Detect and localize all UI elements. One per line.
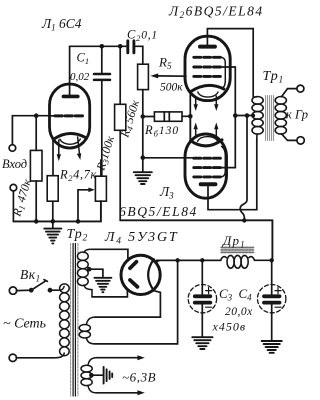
inner bottom arc Л1: [60, 139, 80, 144]
cathode of Л3: [191, 140, 222, 146]
capacitor C4 electrolytic: [258, 260, 286, 340]
wiper arrow of R5 to grid Л2: [150, 73, 186, 78]
svg-text:0,02: 0,02: [70, 71, 90, 83]
label ~Сеть: [3, 317, 46, 332]
output terminal lower к Гр: [297, 137, 304, 144]
resistor R3 potentiometer: [95, 160, 106, 201]
svg-text:к Гр: к Гр: [286, 108, 308, 122]
node B+ rail: [242, 218, 246, 222]
minus mark C3: [206, 306, 212, 308]
resistor R6: [143, 112, 191, 121]
secondary winding Тр1: [275, 97, 286, 135]
anode of Л3: [201, 182, 216, 186]
B+ feed wire with hop: [240, 116, 247, 221]
input terminal upper (Вход): [9, 145, 16, 152]
capacitor C2: [128, 41, 134, 53]
anode of Л1: [63, 95, 77, 99]
ground below C3: [192, 337, 212, 349]
potentiometer R5: [138, 64, 149, 116]
capacitor C1: [94, 74, 110, 80]
svg-text:х450в: х450в: [212, 320, 247, 334]
node C3 rail: [200, 258, 204, 262]
resistor R2: [47, 176, 58, 222]
grid g3 of Л2 (dashes): [194, 56, 221, 59]
label C2 0,1: [127, 28, 158, 44]
triode tube Л1 6С4 envelope: [50, 84, 90, 148]
grid of Л1 (dashes): [55, 114, 83, 117]
label Л4 5У3GТ: [104, 230, 178, 247]
output terminal upper к Гр: [297, 85, 304, 92]
ground rotated 6.3V tap: [104, 367, 113, 384]
label C3 C4 values: [212, 286, 254, 334]
wire C1 line (top bus to R3): [101, 46, 103, 176]
label Тр1: [263, 69, 285, 86]
node grid/R1: [34, 113, 39, 118]
node g2 riser centre tap: [233, 113, 238, 118]
node heater winding B+: [175, 258, 179, 262]
svg-text:~ Сеть: ~ Сеть: [3, 317, 46, 332]
wire mains lower to primary: [16, 357, 55, 359]
switch Вк1 terminal: [9, 287, 16, 294]
svg-text:20,0х: 20,0х: [225, 306, 253, 318]
g2 lead of Л3: [220, 167, 236, 169]
svg-text:С20,1: С20,1: [127, 28, 158, 44]
ground below R5 junction: [134, 158, 152, 184]
wire ground node to grid Л3: [143, 157, 194, 159]
label Вк1: [20, 267, 41, 284]
label R2 4,7к: [59, 168, 97, 184]
6.3V centre tap: [89, 373, 103, 378]
heater lead right Л2: [214, 96, 218, 111]
label 6BQ5/EL84 under Л3: [119, 204, 198, 219]
svg-text:R24,7к: R24,7к: [59, 168, 97, 184]
resistor R4: [115, 46, 126, 220]
wire ground bus: [13, 201, 101, 221]
svg-text:Вход: Вход: [2, 157, 27, 171]
wire R5 bottom to ground node: [142, 117, 144, 158]
centre tap wire Тр1: [235, 115, 253, 117]
capacitor C3 electrolytic: [188, 260, 216, 336]
g3 internal connection to cathode Л3: [220, 146, 225, 177]
resistor R1: [30, 116, 42, 221]
label R4 560к: [117, 98, 143, 140]
inner top arc Л3: [198, 137, 218, 142]
grid g1 of Л2 (dashes): [194, 75, 221, 78]
power transformer Тр2 core: [71, 244, 78, 397]
pentode tube Л2 envelope: [185, 36, 230, 100]
wire 5V winding bottom to B+ node: [95, 260, 178, 344]
node R5 R6 junction: [141, 114, 146, 119]
g3 internal connection to cathode Л2: [220, 57, 225, 89]
wire grid line into tube: [49, 115, 56, 117]
grid g1 of Л3 (dashes): [194, 157, 221, 160]
svg-text:Rб130: Rб130: [144, 123, 179, 139]
cathode of Л2: [191, 85, 224, 91]
node B+ feed centre tap: [245, 113, 250, 118]
primary winding Тр1: [252, 97, 263, 140]
label C1: [70, 51, 90, 84]
choke Др1 core: [221, 246, 254, 253]
pentode tube Л3 envelope: [185, 134, 227, 198]
cathode lead Л2: [189, 91, 191, 116]
HV centre tap to ground: [87, 267, 103, 277]
inner bottom arc Л2: [198, 92, 218, 97]
choke Др1 winding: [221, 255, 272, 268]
label R1 470к: [9, 177, 35, 219]
PSU rail from rectifier: [157, 259, 221, 261]
anode riser Л2: [207, 29, 253, 97]
heater lead right Л1: [77, 137, 81, 160]
wire HV top to rectifier anode: [92, 249, 128, 260]
5V winding Тр2: [79, 317, 95, 344]
primary winding Тр2: [55, 284, 69, 358]
rectifier tube Л4 5У3GТ: [121, 255, 160, 294]
wire 6.3V top with arrow: [96, 355, 145, 360]
wire HV bottom to rectifier anode: [92, 290, 127, 297]
node R2 bus: [51, 219, 56, 224]
wire cathode link Л2-Л3: [189, 116, 191, 142]
wire C2 to R5 top: [135, 46, 143, 64]
ground below C4: [262, 341, 282, 353]
label Л1 6С4: [41, 16, 82, 33]
anode of Л2: [200, 45, 215, 49]
wire top bus: [70, 45, 127, 47]
heater lead right Л3: [214, 123, 218, 138]
grid g2 of Л3 (dashes): [194, 166, 221, 169]
heater lead left Л2: [194, 97, 198, 111]
cathode lead Л3: [189, 116, 191, 141]
node cathode R6: [188, 114, 193, 119]
cathode lead Л1: [52, 140, 54, 176]
svg-text:Л1 6С4: Л1 6С4: [41, 16, 82, 33]
anode riser Л1 to top bus: [69, 46, 71, 94]
node ground junction: [141, 155, 146, 160]
node R4 top bus: [118, 44, 123, 49]
grid g2 of Л2 (dashes): [194, 66, 221, 69]
6.3V winding Тр2: [81, 358, 96, 393]
wire 6.3V bottom with arrow: [96, 390, 145, 395]
screen riser g2 line: [234, 67, 236, 168]
wire input upper to grid line: [12, 116, 49, 145]
node C4 rail: [270, 258, 274, 262]
wire rectifier heater to 5V winding top: [95, 291, 160, 318]
HV winding Тр2: [77, 249, 92, 297]
heater lead left Л3: [194, 123, 198, 138]
plus mark C4: [275, 288, 281, 294]
label ~6,3В: [122, 370, 156, 385]
label Л3: [159, 184, 174, 201]
B+ rail horizontal: [120, 220, 272, 260]
node R3 wiper bus: [76, 219, 81, 224]
switch Вк1: [16, 280, 58, 293]
g2 lead of Л2 to screen riser: [220, 66, 236, 68]
label Др1: [221, 233, 246, 250]
wiper arrow of R3: [78, 188, 95, 222]
node R1 bus: [34, 219, 39, 224]
label Вход: [2, 157, 27, 171]
node C1 top bus: [100, 44, 105, 49]
wire input lower to ground bus: [12, 191, 14, 222]
svg-text:500к: 500к: [160, 82, 183, 94]
output transformer Тр1 core: [266, 96, 274, 141]
node winding centre tap: [252, 114, 256, 118]
label R3 100к: [93, 134, 118, 173]
minus mark C4: [275, 306, 281, 308]
ground HV centre tap: [94, 278, 111, 292]
label Тр2: [67, 227, 89, 244]
label Л2 6BQ5/EL84: [168, 4, 264, 21]
ground below bus: [44, 221, 61, 243]
cathode of Л1: [55, 133, 86, 138]
svg-text:Л4 5У3GТ: Л4 5У3GТ: [104, 230, 178, 247]
label R5 500к: [158, 55, 183, 94]
wire secondary bottom to terminal: [282, 134, 297, 141]
svg-text:~6,3В: ~6,3В: [122, 370, 156, 385]
anode upper Л4: [130, 262, 136, 268]
cathode arc Л4: [148, 259, 154, 290]
svg-text:6BQ5/EL84: 6BQ5/EL84: [119, 204, 198, 219]
wire secondary top to terminal: [282, 89, 297, 97]
plus mark C3: [206, 288, 212, 294]
wire rectifier output to rail: [156, 260, 221, 262]
grid g3 of Л3 (dashes): [194, 175, 221, 178]
anode lead Л3 to output transformer: [208, 139, 257, 210]
mains terminal lower: [9, 354, 16, 361]
input terminal lower (Вход): [10, 184, 17, 191]
heater lead left Л1: [57, 140, 61, 161]
label к Гр: [286, 108, 308, 122]
anode lower Л4: [130, 280, 137, 287]
label R6 130: [144, 123, 179, 139]
